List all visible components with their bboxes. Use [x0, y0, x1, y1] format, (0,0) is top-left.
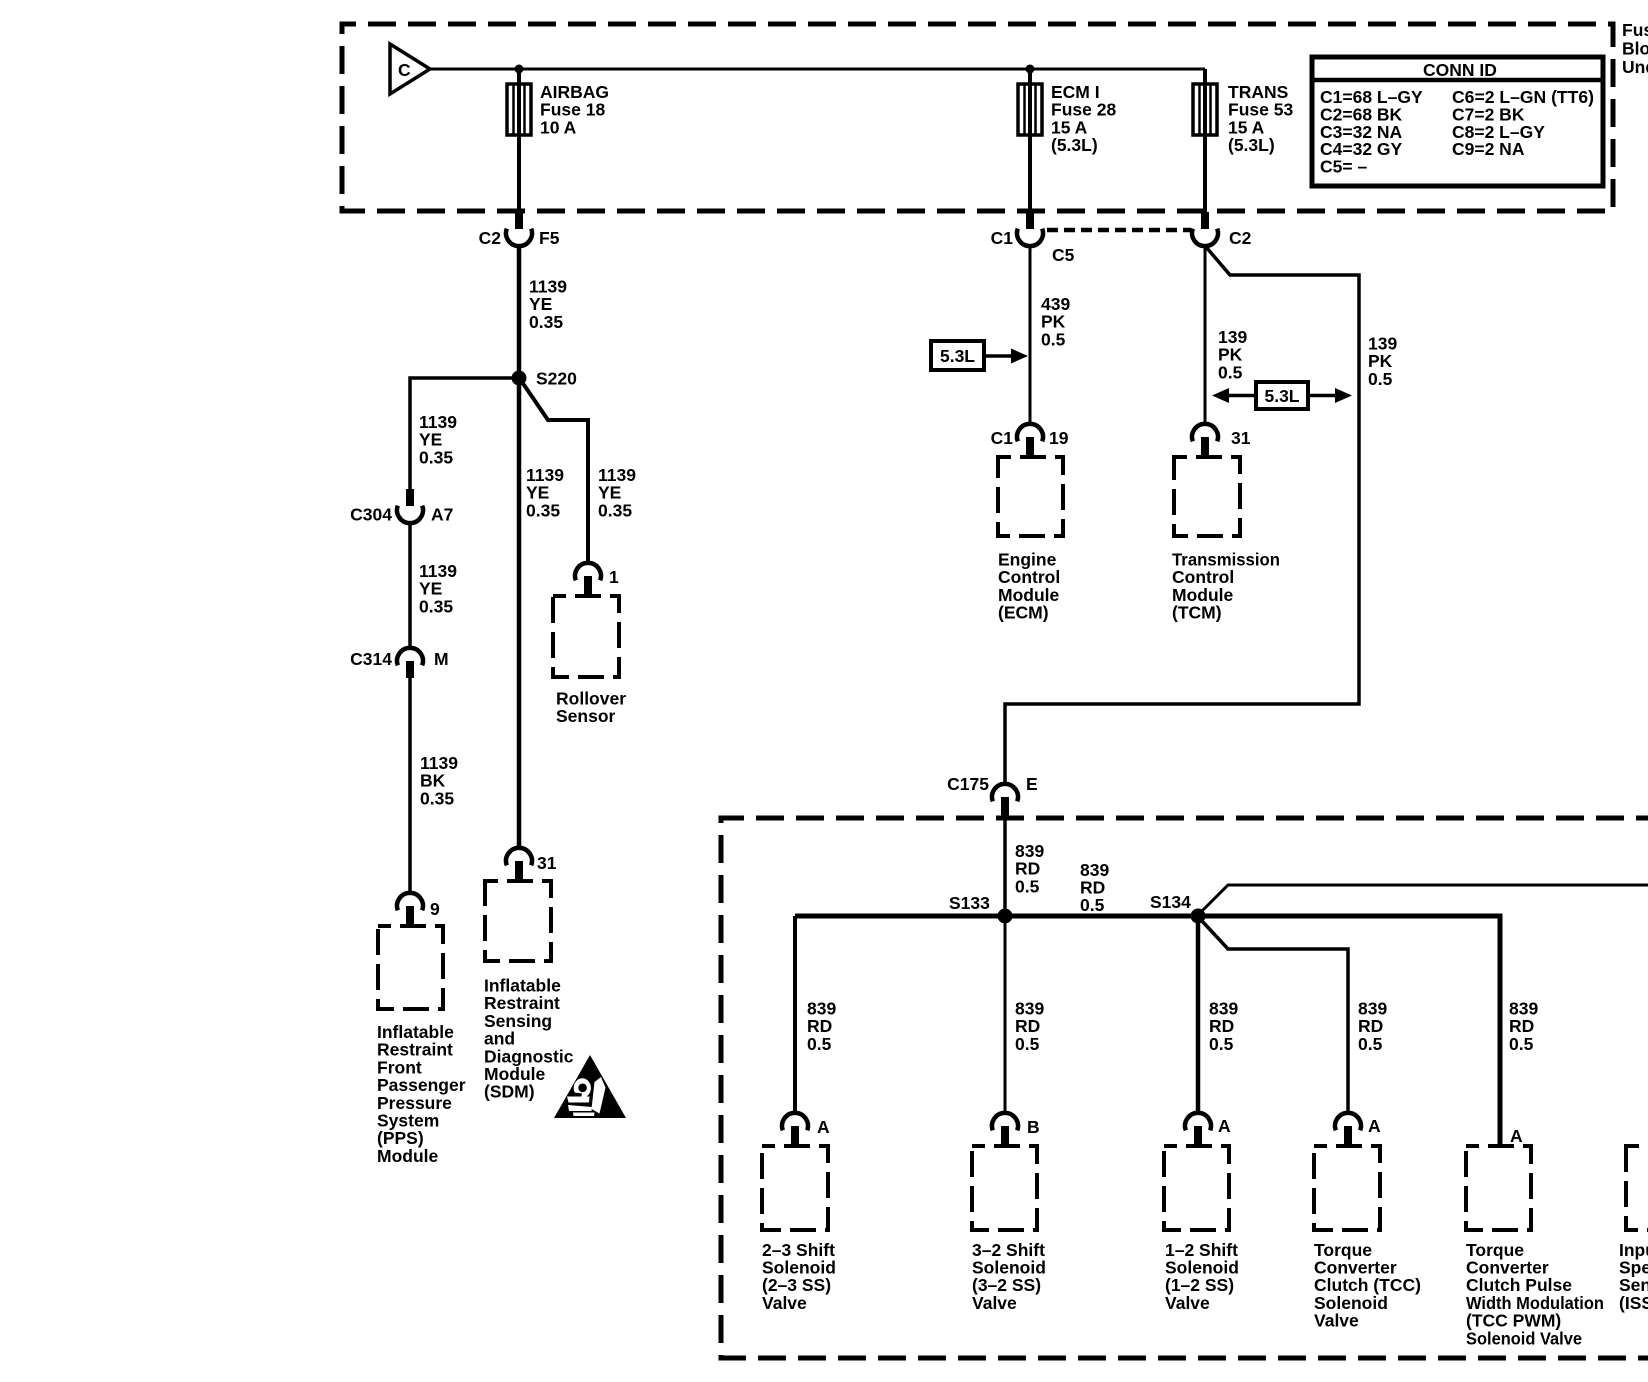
wire: drop to TRANS fuse and connector C2 — [1203, 69, 1207, 212]
2-3 shift solenoid label — [762, 1240, 836, 1313]
svg-text:0.35: 0.35 — [598, 500, 632, 520]
svg-text:F5: F5 — [539, 228, 560, 248]
svg-text:C304: C304 — [350, 505, 392, 525]
svg-text:S220: S220 — [536, 369, 577, 389]
wire: C304 to C314 — [408, 523, 412, 648]
svg-text:0.35: 0.35 — [419, 596, 453, 616]
svg-text:C: C — [398, 60, 411, 80]
2-3 shift solenoid dashed box — [762, 1146, 828, 1230]
svg-text:Fuse: Fuse — [1622, 20, 1648, 40]
wire label 839 RD 0.5 (3-2 drop) — [1015, 999, 1044, 1054]
svg-text:5.3L: 5.3L — [940, 346, 975, 366]
wire label 439 PK 0.5 — [1041, 294, 1070, 349]
TCC solenoid label — [1314, 1240, 1421, 1331]
wire label 1139 YE 0.35 (rollover branch) — [598, 465, 636, 520]
svg-text:C314: C314 — [350, 649, 392, 669]
connector pin A (2-3 shift solenoid) — [782, 1113, 830, 1146]
connector C2 (fuse block output to TCM) — [1192, 212, 1252, 248]
wire label 839 RD 0.5 (TCC drop) — [1358, 999, 1387, 1054]
svg-text:0.35: 0.35 — [529, 312, 563, 332]
ECM label — [998, 550, 1060, 623]
svg-text:(5.3L): (5.3L) — [1228, 135, 1275, 155]
fuse F53 TRANS 15A — [1193, 82, 1293, 155]
fuse F28 ECM I 15A — [1018, 82, 1116, 155]
connector pin 31 (SDM) — [506, 848, 557, 881]
svg-text:C5= –: C5= – — [1320, 157, 1367, 177]
svg-text:A: A — [1510, 1126, 1523, 1146]
node C source triangle — [390, 44, 430, 94]
svg-text:0.5: 0.5 — [1041, 329, 1066, 349]
dashed connector line C5 — [1047, 228, 1191, 233]
svg-text:0.5: 0.5 — [1209, 1034, 1234, 1054]
svg-text:Valve: Valve — [972, 1293, 1017, 1313]
1-2 shift solenoid label — [1165, 1240, 1239, 1313]
wire: S220 diagonal branch to Rollover Sensor — [522, 382, 588, 563]
svg-text:C2: C2 — [1229, 228, 1252, 248]
svg-text:Solenoid Valve: Solenoid Valve — [1466, 1328, 1582, 1348]
svg-text:0.5: 0.5 — [1368, 369, 1393, 389]
svg-text:C2: C2 — [479, 228, 502, 248]
splice S134 — [1150, 892, 1206, 924]
wire: S134 lower branch to TCC solenoid — [1202, 921, 1348, 1113]
svg-text:31: 31 — [1231, 428, 1251, 448]
svg-text:(TCM): (TCM) — [1172, 603, 1222, 623]
svg-text:A: A — [817, 1117, 830, 1137]
svg-text:31: 31 — [537, 853, 557, 873]
TCC solenoid dashed box — [1314, 1146, 1380, 1230]
svg-text:(ECM): (ECM) — [998, 603, 1049, 623]
5.3L callout with arrow (ECM wire) — [931, 341, 1028, 370]
wire 1139 YE 0.35 from F5 down to SDM pin 31 — [517, 246, 522, 848]
SDM label — [484, 976, 574, 1102]
ECM dashed box — [998, 457, 1063, 536]
connector C2 pin F5 (fuse block output) — [479, 212, 560, 248]
connector pin A (TCC solenoid) — [1335, 1113, 1381, 1146]
svg-text:Valve: Valve — [1314, 1311, 1359, 1331]
svg-text:S134: S134 — [1150, 892, 1191, 912]
wire 139 PK 0.5 from C2 to TCM pin 31 — [1204, 246, 1207, 424]
svg-text:0.5: 0.5 — [1218, 362, 1243, 382]
connector C1 pin 19 (ECM) — [991, 424, 1069, 457]
junction at ECM I fuse tap — [1026, 65, 1035, 74]
svg-text:A7: A7 — [431, 505, 453, 525]
1-2 shift solenoid dashed box — [1164, 1146, 1229, 1230]
wire label 839 RD 0.5 (1-2 drop) — [1209, 999, 1238, 1054]
wire 439 PK 0.5 from C1 to ECM pin 19 — [1029, 246, 1032, 424]
TCC PWM solenoid dashed box — [1466, 1146, 1531, 1230]
connector pin B (3-2 shift solenoid) — [992, 1113, 1040, 1146]
fuse block name label (clipped at page edge) — [1622, 20, 1648, 77]
CONN ID table — [1312, 57, 1603, 186]
wire 1139 BK 0.35 from C314 to PPS pin 9 — [408, 678, 412, 893]
svg-text:5.3L: 5.3L — [1264, 386, 1299, 406]
wire: S133 drop to 3-2 shift solenoid — [1004, 923, 1007, 1113]
transmission dashed enclosure — [721, 818, 1648, 1358]
fuse block (Underhood Fuse Block) dashed enclosure — [342, 24, 1613, 211]
wire label 139 PK 0.5 (TCM drop) — [1218, 327, 1247, 382]
svg-text:E: E — [1026, 774, 1038, 794]
wire: drop to AIRBAG fuse and connector F5 — [517, 69, 521, 212]
3-2 shift solenoid label — [972, 1240, 1046, 1313]
svg-text:(ISS): (ISS) — [1619, 1293, 1648, 1313]
wire label 1139 YE 0.35 (left branch) — [419, 412, 457, 467]
Rollover Sensor dashed box — [553, 596, 619, 677]
fuse F18 AIRBAG 10A — [507, 82, 609, 137]
svg-text:0.35: 0.35 — [420, 788, 454, 808]
svg-text:0.5: 0.5 — [1509, 1034, 1534, 1054]
wire label 1139 YE 0.35 (center, below S220) — [526, 465, 564, 520]
svg-text:C1: C1 — [991, 228, 1014, 248]
wire: feed from triangle C along top — [430, 68, 1205, 71]
SDM dashed box — [485, 881, 551, 961]
svg-text:CONN ID: CONN ID — [1423, 60, 1497, 80]
svg-text:Valve: Valve — [762, 1293, 807, 1313]
connector C304 pin A7 — [350, 489, 453, 525]
wire label 1139 YE 0.35 (below F5) — [529, 277, 567, 332]
PPS module dashed box — [378, 926, 443, 1009]
svg-text:19: 19 — [1049, 428, 1069, 448]
wire label 1139 BK 0.35 — [420, 753, 458, 808]
wire 139 PK 0.5 routed right and down to C175 — [1005, 247, 1359, 784]
svg-text:Module: Module — [377, 1146, 439, 1166]
connector pin 31 (TCM) — [1192, 424, 1251, 457]
svg-text:0.5: 0.5 — [1015, 876, 1040, 896]
wire: S134 upper branch exiting right — [1202, 885, 1648, 911]
TCM label — [1172, 550, 1280, 623]
connector C175 pin E — [947, 774, 1038, 818]
svg-text:Sensor: Sensor — [556, 706, 616, 726]
wire: S134 drop to 1-2 shift solenoid — [1196, 923, 1201, 1113]
svg-text:1: 1 — [609, 567, 619, 587]
svg-text:0.5: 0.5 — [1015, 1034, 1040, 1054]
svg-text:0.35: 0.35 — [526, 500, 560, 520]
wire label 1139 YE 0.35 (below C304) — [419, 561, 457, 616]
connector pin A (1-2 shift solenoid) — [1185, 1113, 1231, 1146]
svg-text:9: 9 — [430, 899, 440, 919]
wire: S220 left branch to C304 — [410, 378, 519, 489]
svg-text:(SDM): (SDM) — [484, 1082, 535, 1102]
svg-text:Valve: Valve — [1165, 1293, 1210, 1313]
svg-text:M: M — [434, 649, 449, 669]
TCC PWM solenoid label — [1466, 1240, 1604, 1349]
5.3L callout with double arrows — [1212, 382, 1352, 409]
junction at AIRBAG fuse tap — [515, 65, 524, 74]
Rollover Sensor label — [556, 689, 626, 727]
svg-text:0.5: 0.5 — [1358, 1034, 1383, 1054]
connector pin 1 (Rollover Sensor) — [575, 563, 619, 596]
wire 839 RD 0.5 from C175 to S133 — [1003, 818, 1007, 912]
connector C1 (fuse block output to ECM) — [991, 212, 1075, 265]
svg-text:B: B — [1027, 1117, 1040, 1137]
svg-text:S133: S133 — [949, 893, 990, 913]
svg-text:C9=2 NA: C9=2 NA — [1452, 139, 1525, 159]
svg-text:10 A: 10 A — [540, 117, 577, 137]
svg-text:C175: C175 — [947, 774, 989, 794]
svg-text:A: A — [1218, 1116, 1231, 1136]
splice S133 — [949, 893, 1013, 924]
TCM dashed box — [1174, 457, 1240, 536]
connector C314 pin M — [350, 648, 448, 678]
svg-text:(5.3L): (5.3L) — [1051, 135, 1098, 155]
wire: drop to ECM I fuse and connector C1 — [1028, 69, 1032, 212]
splice S220 — [512, 369, 578, 389]
svg-text:C5: C5 — [1052, 245, 1075, 265]
svg-text:C1: C1 — [991, 428, 1014, 448]
wire: left branch to 2-3 shift solenoid — [793, 916, 797, 1113]
connector pin 9 (PPS module) — [397, 893, 440, 926]
svg-text:Underhood: Underhood — [1622, 57, 1648, 77]
svg-text:0.35: 0.35 — [419, 447, 453, 467]
wire: trunk S133-S134 and drop to TCC PWM valve — [795, 916, 1500, 1146]
ISS dashed box (clipped at page edge) — [1626, 1146, 1648, 1230]
wire label 839 RD 0.5 (2-3 drop) — [807, 999, 836, 1054]
ISS label (clipped) — [1619, 1240, 1648, 1313]
svg-text:A: A — [1368, 1116, 1381, 1136]
wire label 839 RD 0.5 (below C175) — [1015, 841, 1044, 896]
SIR warning triangle icon — [554, 1055, 626, 1118]
PPS module label — [377, 1022, 466, 1166]
wire label 839 RD 0.5 (S133 to S134) — [1080, 860, 1109, 915]
svg-text:0.5: 0.5 — [1080, 895, 1105, 915]
wire label 139 PK 0.5 (routed run) — [1368, 334, 1397, 389]
svg-text:0.5: 0.5 — [807, 1034, 832, 1054]
wire label 839 RD 0.5 (TCC PWM drop) — [1509, 999, 1538, 1054]
svg-text:Block: Block — [1622, 39, 1648, 59]
3-2 shift solenoid dashed box — [972, 1146, 1037, 1230]
